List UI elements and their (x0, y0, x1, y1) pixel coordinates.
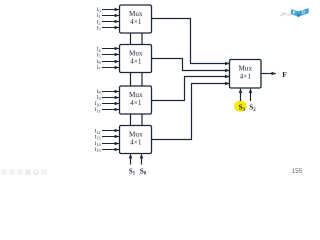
svg-text:4×1: 4×1 (130, 99, 142, 107)
mux U1 box (120, 5, 152, 33)
svg-text:I7: I7 (97, 65, 101, 71)
svg-text:Mux: Mux (129, 91, 143, 99)
input I10 (95, 101, 119, 107)
input I3 (97, 25, 119, 31)
svg-text:F: F (293, 10, 296, 15)
svg-text:I13: I13 (95, 134, 101, 140)
toolbar icon circles (faint) (2, 170, 47, 175)
svg-text:Mux: Mux (129, 130, 143, 138)
input I15 (95, 147, 119, 153)
mux U4 box (120, 126, 152, 154)
svg-text:D: D (302, 10, 305, 15)
svg-text:I9: I9 (97, 95, 101, 101)
svg-text:4×1: 4×1 (240, 72, 252, 80)
input I6 (97, 59, 119, 65)
select bus wire S1/S0 between Mux2 and Mux3 (131, 73, 143, 87)
svg-text:I3: I3 (97, 25, 101, 31)
select arrow S2 into Mux5 (250, 89, 252, 101)
svg-text:4×1: 4×1 (130, 138, 142, 146)
input I2 (97, 19, 119, 25)
svg-text:F: F (282, 70, 287, 79)
watermark text (faded farsi) (280, 12, 291, 15)
input I11 (95, 107, 119, 113)
wire Mux3 output to Mux5 input 2 (152, 77, 230, 101)
select input arrows into Mux4 bottom (131, 154, 142, 165)
svg-text:4×1: 4×1 (130, 18, 142, 26)
wire Mux2 output to Mux5 input 1 (152, 59, 230, 71)
input I5 (97, 52, 119, 58)
svg-text:Mux: Mux (239, 64, 253, 72)
input I0 (97, 7, 119, 13)
svg-text:155: 155 (292, 168, 303, 175)
input I4 (97, 47, 119, 53)
select bus wire S1/S0 between Mux3 and Mux4 (131, 114, 143, 126)
svg-text:4×1: 4×1 (130, 57, 142, 65)
mux U2 box (120, 45, 152, 73)
input I1 (97, 13, 119, 19)
svg-text:I15: I15 (95, 147, 101, 153)
svg-text:I5: I5 (97, 52, 101, 58)
input I14 (95, 141, 119, 147)
svg-text:I11: I11 (95, 107, 101, 113)
output wire F (261, 73, 276, 75)
wire Mux4 output to Mux5 input 3 (152, 84, 230, 140)
select bus wire S1/S0 between Mux1 and Mux2 (131, 33, 143, 45)
svg-text:Mux: Mux (129, 10, 143, 18)
mux U3 box (120, 86, 152, 114)
svg-text:I1: I1 (97, 13, 101, 19)
watermark logo (blue open book) (291, 8, 309, 17)
highlight circle on S3 (234, 101, 247, 112)
mux U5 box (output stage) (230, 60, 262, 89)
select arrow S3 into Mux5 (240, 89, 242, 101)
svg-text:Mux: Mux (129, 49, 143, 57)
input I8 (97, 89, 119, 95)
wire Mux1 output to Mux5 input 0 (152, 19, 230, 64)
input I9 (97, 95, 119, 101)
input I12 (95, 129, 119, 135)
input I13 (95, 134, 119, 140)
input I7 (97, 65, 119, 71)
